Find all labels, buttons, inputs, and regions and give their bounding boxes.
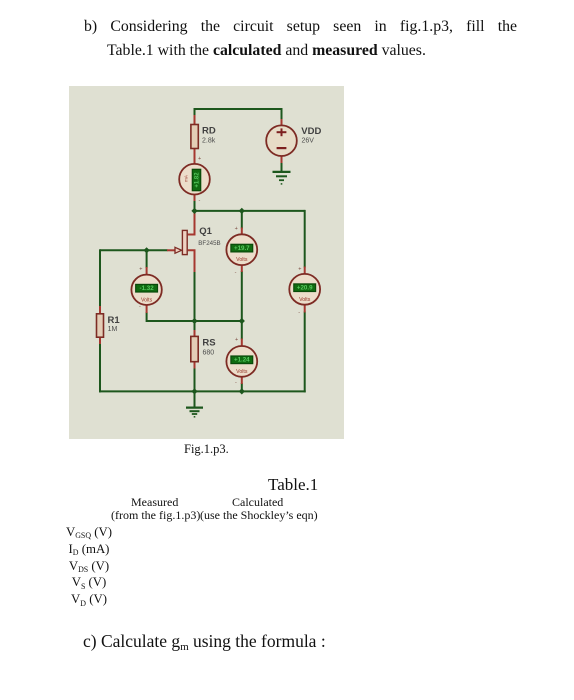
wire VDD top stub bbox=[281, 108, 283, 120]
ammeter AM1 bbox=[179, 164, 210, 195]
wire left column upper bbox=[99, 249, 101, 306]
pin V2 plus bbox=[146, 267, 148, 276]
pin RD bottom bbox=[194, 148, 196, 165]
battery VDD bbox=[266, 125, 297, 156]
svg-text:Volts: Volts bbox=[141, 297, 153, 303]
paragraph c bbox=[83, 631, 326, 652]
pin V3 plus bbox=[304, 267, 306, 276]
pin V3 minus bbox=[304, 304, 306, 313]
wire V4 bottom branch bbox=[241, 383, 243, 392]
wire top rail bbox=[195, 108, 282, 110]
svg-text:VDD: VDD bbox=[301, 126, 321, 137]
pin RS top bbox=[194, 330, 196, 338]
svg-text:-: - bbox=[235, 379, 237, 385]
wire V3 bottom to ground rail bbox=[304, 312, 306, 393]
svg-text:R1: R1 bbox=[108, 315, 121, 326]
svg-text:+1.82: +1.82 bbox=[194, 172, 200, 188]
pin V1 plus bbox=[241, 228, 243, 236]
wire RD top stub bbox=[194, 108, 196, 116]
ground G2 bottom bbox=[186, 408, 203, 417]
svg-text:2.8k: 2.8k bbox=[202, 137, 216, 144]
svg-text:BF245B: BF245B bbox=[198, 240, 220, 247]
wire V1 bottom branch bbox=[241, 271, 243, 322]
svg-text:-1.32: -1.32 bbox=[140, 285, 155, 292]
svg-text:26V: 26V bbox=[302, 138, 315, 145]
pin Q1 source bbox=[188, 250, 195, 272]
svg-text:mA: mA bbox=[184, 174, 189, 182]
voltmeter V1 bbox=[226, 234, 257, 265]
paragraph b line 2 bbox=[107, 39, 426, 63]
junction ground rail RS bbox=[191, 388, 197, 394]
svg-text:-: - bbox=[235, 269, 237, 275]
voltmeter V3 bbox=[289, 274, 320, 305]
pin Q1 drain bbox=[188, 213, 195, 235]
svg-text:+: + bbox=[139, 267, 142, 273]
pin Q1 gate bbox=[167, 249, 175, 251]
svg-text:+: + bbox=[298, 267, 301, 273]
svg-text:-: - bbox=[298, 309, 300, 315]
junction ground rail V4 bbox=[239, 388, 245, 394]
pin RD top bbox=[194, 115, 196, 125]
pin V2 minus bbox=[146, 304, 148, 313]
svg-text:+1.24: +1.24 bbox=[234, 357, 250, 364]
pin VDD bottom bbox=[281, 156, 283, 164]
svg-text:Volts: Volts bbox=[236, 369, 248, 375]
svg-text:680: 680 bbox=[203, 350, 215, 357]
svg-text:RS: RS bbox=[202, 338, 215, 349]
junction source node RS bbox=[191, 318, 197, 324]
pin V4 minus bbox=[241, 376, 243, 384]
pin V1 minus bbox=[241, 265, 243, 273]
pin AM1 bottom bbox=[194, 194, 196, 201]
svg-text:+: + bbox=[235, 226, 238, 232]
svg-text:+: + bbox=[198, 156, 201, 162]
Table.1 heading bbox=[268, 475, 318, 495]
wire Q1 source down bbox=[194, 271, 196, 322]
wire VDD ground stem bbox=[281, 162, 283, 172]
wire gate row bbox=[100, 249, 168, 251]
wire bottom ground stem bbox=[194, 391, 196, 407]
row labels bbox=[60, 524, 118, 608]
wire V2 bottom branch bbox=[146, 312, 148, 322]
pin VDD top bbox=[281, 119, 283, 127]
resistor R1 bbox=[97, 314, 104, 337]
svg-text:Q1: Q1 bbox=[199, 226, 212, 237]
svg-text:Volts: Volts bbox=[236, 257, 248, 263]
ground G1 under VDD bbox=[273, 172, 291, 184]
junction gate node bbox=[143, 247, 149, 253]
wire R1 bottom to ground rail bbox=[99, 343, 101, 392]
transistor Q1 bbox=[175, 230, 187, 254]
wire ammeter to drain node bbox=[194, 200, 196, 212]
pin RS bottom bbox=[194, 361, 196, 369]
resistor RS bbox=[191, 336, 198, 361]
svg-text:+20.9: +20.9 bbox=[297, 285, 313, 292]
pin V4 plus bbox=[241, 339, 243, 348]
svg-text:-: - bbox=[199, 198, 201, 204]
svg-text:RD: RD bbox=[202, 126, 216, 137]
wire bottom ground rail bbox=[99, 390, 306, 392]
voltmeter V2 bbox=[131, 275, 161, 305]
svg-text:+19.7: +19.7 bbox=[234, 245, 250, 252]
wire V2 top branch bbox=[146, 250, 148, 268]
voltmeter V4 bbox=[226, 346, 257, 377]
circuit panel bbox=[69, 86, 344, 439]
wire source row bbox=[147, 320, 242, 322]
paragraph b line 1 bbox=[84, 15, 517, 63]
pin R1 bottom bbox=[99, 337, 101, 345]
pin R1 top bbox=[99, 306, 101, 315]
header note calculated bbox=[200, 508, 318, 523]
svg-text:-: - bbox=[139, 304, 141, 310]
wire drain row bbox=[194, 210, 305, 212]
svg-text:1M: 1M bbox=[108, 326, 118, 333]
wire V4 top branch bbox=[241, 321, 243, 340]
junction source node V4 bbox=[239, 318, 245, 324]
figure caption Fig.1.p3. bbox=[184, 442, 229, 457]
resistor RD bbox=[191, 125, 198, 149]
wire right branch down bbox=[304, 210, 306, 268]
svg-text:Volts: Volts bbox=[299, 297, 311, 303]
column header Calculated bbox=[232, 495, 283, 510]
junction drain node bbox=[191, 208, 197, 214]
junction V1 top node bbox=[239, 208, 245, 214]
header note measured bbox=[111, 508, 200, 523]
svg-text:+: + bbox=[235, 337, 238, 343]
wire RS bottom to ground rail bbox=[194, 368, 196, 392]
wire V1 top branch bbox=[241, 211, 243, 229]
wire RS top stub bbox=[194, 320, 196, 331]
column header Measured bbox=[131, 495, 178, 510]
